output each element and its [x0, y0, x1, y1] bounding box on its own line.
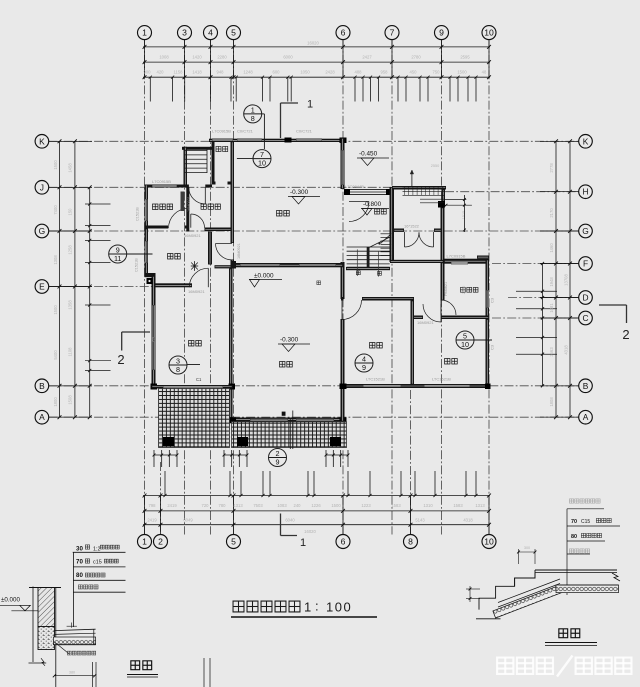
svg-text:1458: 1458 [68, 163, 73, 173]
svg-text:30: 30 [76, 546, 83, 553]
steps profile [535, 569, 617, 571]
svg-text:1308: 1308 [53, 255, 58, 265]
svg-text:H: H [582, 187, 588, 197]
svg-text:3663: 3663 [549, 347, 554, 357]
dimension tick groups below terrace [154, 454, 177, 456]
svg-text:70: 70 [571, 519, 577, 525]
study and guest bottom wall [341, 384, 490, 388]
callout 3/8 [187, 364, 200, 366]
steps notes [569, 499, 573, 503]
storage room door [349, 202, 369, 222]
callout 2/9 [289, 418, 291, 450]
svg-text:450: 450 [410, 70, 418, 75]
svg-text:2590: 2590 [462, 286, 466, 294]
svg-text:2280: 2280 [217, 55, 227, 60]
svg-text:900: 900 [144, 70, 152, 75]
svg-text:-0.300: -0.300 [280, 337, 299, 344]
room label kitchen [168, 254, 173, 259]
svg-text:2170: 2170 [549, 208, 554, 218]
garage double door [405, 232, 420, 247]
svg-text:1050: 1050 [300, 70, 310, 75]
slope tick [67, 625, 77, 627]
splash title [131, 661, 140, 670]
svg-text:6040: 6040 [285, 518, 295, 523]
svg-text:7: 7 [390, 28, 395, 38]
worker-room left wall [145, 185, 149, 229]
room label worker [153, 204, 158, 209]
svg-text:1500: 1500 [457, 70, 467, 75]
living right wall [341, 262, 345, 299]
svg-text:16020: 16020 [307, 41, 319, 46]
svg-text:2419: 2419 [147, 518, 157, 523]
bottom dimension lines [143, 495, 490, 497]
svg-text:9: 9 [276, 458, 280, 467]
svg-text:4: 4 [208, 28, 213, 38]
svg-text:1583: 1583 [391, 503, 401, 508]
svg-text:L7C0944B: L7C0944B [345, 184, 364, 189]
svg-text:13708: 13708 [564, 274, 569, 286]
top-left lower wall [182, 147, 212, 150]
svg-text:C15: C15 [581, 519, 590, 525]
bathroom top-right notch [477, 256, 489, 259]
svg-text:K: K [583, 136, 589, 146]
svg-text:±0.000: ±0.000 [254, 273, 274, 280]
equipment room bottom wall [212, 182, 216, 185]
svg-text:L7C0915B: L7C0915B [212, 129, 231, 134]
svg-text:80: 80 [76, 572, 83, 579]
svg-text:1226: 1226 [311, 503, 321, 508]
svg-text:3: 3 [182, 28, 187, 38]
stair top wall [392, 186, 446, 190]
room label equipment [216, 146, 221, 151]
svg-text:C3: C3 [490, 344, 495, 350]
study/guest divider wall [411, 301, 415, 385]
svg-text:B: B [583, 381, 589, 391]
svg-text:2419: 2419 [167, 503, 177, 508]
flue symbol [191, 265, 198, 267]
svg-text:16M0921: 16M0921 [184, 233, 201, 238]
svg-text:8: 8 [176, 365, 180, 374]
kitchen sw corner jog [145, 273, 156, 277]
svg-text:9: 9 [439, 28, 444, 38]
svg-text:J: J [40, 182, 44, 192]
top grid bubbles [138, 26, 152, 40]
svg-text:5: 5 [231, 537, 236, 547]
storage room top window wall [344, 189, 392, 195]
laundry top door [189, 188, 206, 205]
svg-text:1808: 1808 [549, 397, 554, 407]
bathroom left wall [441, 263, 445, 301]
svg-text:798: 798 [149, 503, 157, 508]
svg-text:1948: 1948 [549, 277, 554, 287]
svg-text:2: 2 [158, 537, 163, 547]
dining left wall [152, 276, 156, 389]
svg-text:2550: 2550 [431, 164, 439, 168]
bathroom right wall [486, 260, 490, 319]
svg-text:16M0921: 16M0921 [237, 243, 241, 259]
terrace tiles right [232, 422, 347, 448]
central vertical wall upper [231, 142, 235, 244]
bottom grid bubbles [138, 535, 152, 549]
stair bottom wall [346, 267, 390, 270]
hallway door [216, 244, 233, 260]
worker-room top wall [145, 185, 189, 188]
svg-text:1: 1 [300, 537, 306, 549]
horizontal grid lines [49, 140, 579, 142]
laundry bottom wall [205, 228, 235, 232]
svg-text:A: A [39, 412, 45, 422]
svg-text:±0.000: ±0.000 [1, 597, 20, 604]
terrace tiles left [159, 389, 230, 448]
svg-text:1248: 1248 [243, 70, 253, 75]
svg-text:48: 48 [482, 70, 487, 75]
kitchen corner flue box [147, 278, 153, 284]
room label garage [277, 211, 282, 216]
steps title [559, 629, 568, 638]
svg-text:K: K [39, 136, 45, 146]
south wall right of stair [390, 260, 444, 263]
garage bottom wall [234, 263, 343, 267]
svg-text:750: 750 [433, 70, 441, 75]
svg-text:1158: 1158 [173, 70, 183, 75]
section marker 1 top [280, 103, 282, 138]
dimension marks near stair right [445, 199, 467, 201]
svg-text:-0.450: -0.450 [359, 151, 378, 158]
svg-text:1460: 1460 [549, 243, 554, 253]
left grid bubbles [35, 135, 49, 149]
svg-text:7503: 7503 [253, 503, 263, 508]
bathroom top window wall [444, 259, 489, 264]
svg-text:9: 9 [362, 363, 366, 372]
top dimension lines [143, 46, 490, 48]
dining bottom wall [152, 385, 233, 389]
room label guest [445, 359, 450, 364]
bathroom door [441, 300, 456, 315]
main stair flights [347, 246, 390, 248]
equipment room divider wall [212, 142, 215, 185]
svg-text:1: 1 [304, 600, 311, 615]
left dimension lines [59, 141, 61, 417]
svg-text:C0/C721: C0/C721 [296, 129, 313, 134]
callout 1/8 [262, 113, 265, 115]
svg-text:1420: 1420 [192, 55, 202, 60]
worker room door [169, 208, 189, 228]
svg-text:1081: 1081 [549, 303, 554, 313]
room label bathroom [460, 287, 465, 292]
svg-text:16020: 16020 [304, 529, 316, 534]
svg-text:1500: 1500 [53, 305, 58, 315]
svg-text:958: 958 [381, 70, 389, 75]
svg-text:2428: 2428 [325, 70, 335, 75]
svg-text:70: 70 [76, 559, 83, 566]
svg-text:2778: 2778 [549, 163, 554, 173]
guest room door [423, 304, 441, 322]
dining bottom corner columns [151, 384, 158, 390]
svg-text:C1521B: C1521B [135, 258, 139, 272]
svg-text:7400: 7400 [53, 205, 58, 215]
svg-text:1258: 1258 [68, 245, 73, 255]
svg-text:L7C0915B: L7C0915B [152, 179, 171, 184]
svg-text:5: 5 [231, 28, 236, 38]
svg-text:c15: c15 [93, 560, 102, 566]
svg-text:2780: 2780 [411, 55, 421, 60]
kitchen left wall [145, 229, 149, 275]
svg-text:5400: 5400 [53, 350, 58, 360]
central vertical wall lower stub [231, 260, 235, 269]
svg-text:LTC1521B: LTC1521B [366, 377, 385, 382]
svg-text:720: 720 [202, 503, 210, 508]
section marker 1 bottom [280, 514, 282, 536]
svg-text:6049: 6049 [183, 518, 193, 523]
svg-text:A: A [583, 412, 589, 422]
guest room top wall [411, 316, 423, 320]
watermark [497, 658, 513, 674]
svg-text:10: 10 [484, 28, 494, 38]
callout 9/11 [126, 253, 152, 255]
svg-text:16M0921: 16M0921 [187, 196, 191, 212]
svg-text:C1: C1 [196, 377, 202, 382]
svg-text:1508: 1508 [68, 395, 73, 405]
svg-text:11: 11 [114, 254, 121, 263]
svg-text:G: G [582, 226, 589, 236]
double-door wall [394, 229, 405, 232]
svg-text:L7C0915B: L7C0915B [447, 254, 466, 259]
svg-text:2: 2 [622, 327, 629, 342]
right dimension lines [555, 141, 557, 417]
dining/living divider wall [229, 268, 233, 418]
svg-text:1: 1 [142, 537, 147, 547]
worker-room bottom wall [145, 226, 168, 229]
svg-text:100: 100 [326, 600, 352, 615]
svg-text:1418: 1418 [192, 70, 202, 75]
svg-text:600: 600 [273, 70, 281, 75]
hallway bottom wall [215, 265, 233, 268]
svg-text:240: 240 [294, 503, 302, 508]
svg-text:948: 948 [217, 70, 225, 75]
svg-text:1108: 1108 [68, 347, 73, 357]
svg-text:G: G [39, 226, 46, 236]
room label dining [189, 341, 194, 346]
steps gravel band [493, 585, 563, 618]
svg-text:1: 1 [142, 28, 147, 38]
storage room right wall [390, 187, 395, 262]
vertical grid lines [144, 40, 146, 535]
svg-text:1:2: 1:2 [93, 547, 101, 553]
svg-text:16M0921: 16M0921 [417, 320, 434, 325]
right grid bubbles [579, 135, 593, 149]
apron layers [54, 629, 95, 630]
svg-text:1800: 1800 [53, 397, 58, 407]
terrace columns [163, 437, 174, 446]
caulk label [54, 642, 69, 654]
stair upper flight [403, 186, 445, 188]
worker/laundry divider wall [186, 187, 189, 232]
laundry door [191, 214, 205, 228]
steps dim ticks [519, 551, 536, 553]
svg-text:PM0821: PM0821 [444, 282, 448, 296]
svg-text:5143: 5143 [415, 518, 425, 523]
upper-left vertical wall [184, 147, 188, 187]
svg-text:1313: 1313 [233, 503, 243, 508]
svg-text:10: 10 [461, 340, 469, 349]
svg-text:1083: 1083 [277, 503, 287, 508]
svg-text:2595: 2595 [460, 55, 470, 60]
guest room right wall [486, 319, 490, 384]
svg-text:C1521B: C1521B [136, 207, 140, 221]
svg-text:4318: 4318 [564, 345, 569, 355]
equipment label right [374, 209, 379, 214]
living bottom wall [229, 418, 347, 422]
svg-text:420: 420 [157, 70, 165, 75]
svg-text:2427: 2427 [362, 55, 372, 60]
splash apron wall section [38, 588, 55, 627]
svg-text:D: D [582, 293, 588, 303]
callout 7/10 [237, 158, 253, 160]
svg-text:8: 8 [251, 114, 255, 123]
study top wall [341, 297, 344, 301]
kitchen bottom wall [152, 283, 193, 287]
svg-text:B: B [39, 381, 45, 391]
svg-text:1008: 1008 [159, 55, 169, 60]
svg-text:10: 10 [484, 537, 494, 547]
svg-text:16*1522: 16*1522 [404, 224, 420, 229]
svg-text:6: 6 [341, 28, 346, 38]
svg-text:780: 780 [219, 503, 227, 508]
svg-text:488: 488 [355, 70, 363, 75]
svg-text:-0.800: -0.800 [363, 201, 382, 208]
room label laundry [201, 204, 206, 209]
room label study [370, 343, 375, 348]
svg-text:1500: 1500 [53, 160, 58, 170]
svg-text:LTC1521B: LTC1521B [432, 377, 451, 382]
study door [342, 300, 362, 320]
svg-text:2: 2 [117, 352, 124, 367]
callout 4/9 [355, 354, 373, 372]
svg-text:8: 8 [408, 537, 413, 547]
stair right wall [442, 190, 446, 202]
kitchen right wall [208, 232, 212, 265]
svg-text:F: F [583, 259, 588, 269]
top exterior wall [209, 139, 346, 142]
svg-text:6: 6 [341, 537, 346, 547]
svg-text:C: C [582, 313, 588, 323]
garage right wall [341, 138, 345, 189]
side stair flight [381, 233, 392, 235]
svg-text:1583: 1583 [453, 503, 463, 508]
svg-text:C0/C721: C0/C721 [237, 129, 254, 134]
svg-text:6000: 6000 [283, 55, 293, 60]
svg-text:300: 300 [524, 546, 530, 550]
svg-text:380: 380 [69, 671, 75, 675]
svg-text:4318: 4318 [463, 518, 473, 523]
svg-text:80: 80 [571, 534, 577, 540]
section marker 2 right [599, 304, 627, 306]
svg-text:16M0921: 16M0921 [188, 289, 205, 294]
callout 5/10 [474, 339, 492, 341]
svg-text:1223: 1223 [361, 503, 371, 508]
svg-text:1: 1 [307, 99, 313, 111]
svg-text:C3: C3 [490, 297, 495, 303]
apron bottom lines [29, 662, 47, 664]
svg-text:E: E [39, 282, 45, 292]
section marker 2 left [122, 331, 150, 333]
svg-text:-0.300: -0.300 [290, 189, 309, 196]
worker room closet [181, 192, 185, 212]
svg-text::: : [315, 599, 319, 614]
svg-text:1310: 1310 [423, 503, 433, 508]
svg-text:1358: 1358 [68, 300, 73, 310]
svg-text:150: 150 [68, 208, 73, 216]
svg-text:C3: C3 [151, 336, 156, 342]
small stair top-left [184, 150, 208, 152]
svg-text:1500: 1500 [331, 503, 341, 508]
svg-text:10: 10 [258, 159, 266, 168]
room label living [280, 362, 285, 367]
kitchen door [189, 268, 208, 287]
main title [233, 601, 244, 612]
svg-text:1313: 1313 [475, 503, 485, 508]
